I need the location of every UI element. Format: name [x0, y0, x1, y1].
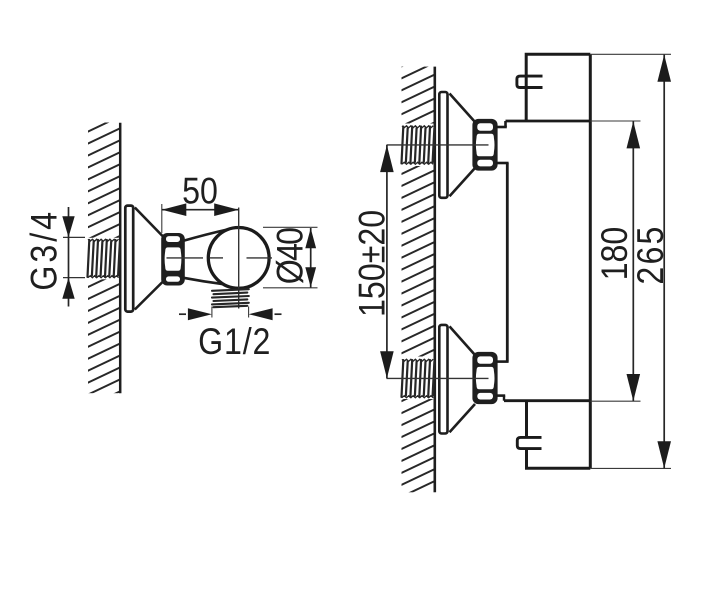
dimension 265 extension lines — [590, 54, 671, 468]
dimension Ø40 line — [310, 228, 312, 288]
dimension 265 arrows — [657, 55, 671, 469]
dimension 180 extension lines — [590, 121, 640, 401]
dimension G3/4 ticks — [63, 237, 85, 277]
dimension 50 line — [162, 209, 239, 211]
svg-text:265: 265 — [631, 224, 672, 284]
mixer body bottom section — [527, 401, 591, 469]
wall hatch right — [399, 67, 434, 493]
label G1/2 — [198, 322, 271, 363]
dimension Ø40 arrows — [305, 228, 316, 287]
wall face line right — [433, 67, 436, 493]
svg-text:G1/2: G1/2 — [198, 322, 271, 363]
center line bottom connection — [387, 377, 489, 379]
escutcheon plate left — [125, 206, 133, 312]
escutcheon plate top — [439, 92, 447, 198]
escutcheon cone left — [135, 208, 163, 310]
dimension 50 extension line — [161, 204, 163, 233]
dimension 265 line — [663, 55, 665, 469]
svg-text:150±20: 150±20 — [352, 210, 393, 317]
top connection stubs — [496, 127, 509, 163]
label 150±20 — [352, 210, 393, 317]
dimension G1/2 arrows and tails — [179, 308, 282, 320]
dimension 150±20 arrows — [380, 145, 394, 378]
svg-text:Ø40: Ø40 — [270, 228, 311, 284]
dimension Ø40 extension lines — [263, 227, 318, 287]
hex nut top — [472, 119, 497, 171]
mixer body bottom edge — [504, 399, 590, 402]
dimension G3/4 arrows — [62, 216, 74, 299]
wall hatch left — [85, 123, 121, 394]
thread bottom connection — [402, 360, 435, 397]
label 180 — [595, 227, 636, 281]
label G3/4 — [24, 209, 65, 291]
thread G3/4 (pipe through wall) — [88, 240, 120, 277]
escutcheon cone bottom — [450, 326, 476, 432]
mixer body left edge — [506, 163, 509, 362]
dimension 180 line — [632, 121, 634, 401]
svg-text:180: 180 — [595, 227, 636, 281]
dimension 180 arrows — [627, 121, 641, 401]
escutcheon plate bottom — [439, 325, 447, 434]
mixer body right edge — [589, 54, 592, 468]
svg-text:G3/4: G3/4 — [24, 209, 65, 291]
thread top connection — [402, 127, 435, 164]
label Ø40 — [270, 228, 311, 284]
hex nut left — [161, 233, 185, 286]
center line top connection — [387, 144, 489, 146]
label 265 — [631, 224, 672, 284]
bottom connection stubs — [496, 362, 509, 401]
top hose tab — [517, 76, 543, 87]
dimension G3/4 line — [68, 207, 70, 307]
outlet thread G1/2 — [212, 289, 249, 307]
dimension G1/2 extension lines — [212, 307, 249, 318]
mixer body top section — [526, 54, 590, 121]
label 50 — [182, 171, 218, 212]
valve body circle Ø40 — [208, 228, 269, 289]
neck to valve body — [184, 229, 230, 284]
wall face line left — [119, 123, 122, 394]
dimension 50 arrows — [162, 203, 239, 216]
mixer body top edge — [506, 121, 591, 127]
center lines of circle — [167, 208, 273, 309]
hex nut bottom — [472, 352, 497, 404]
svg-text:50: 50 — [182, 171, 218, 212]
escutcheon cone top — [450, 94, 476, 197]
dimension 150±20 line — [386, 145, 388, 378]
bottom hose tab — [517, 437, 541, 448]
